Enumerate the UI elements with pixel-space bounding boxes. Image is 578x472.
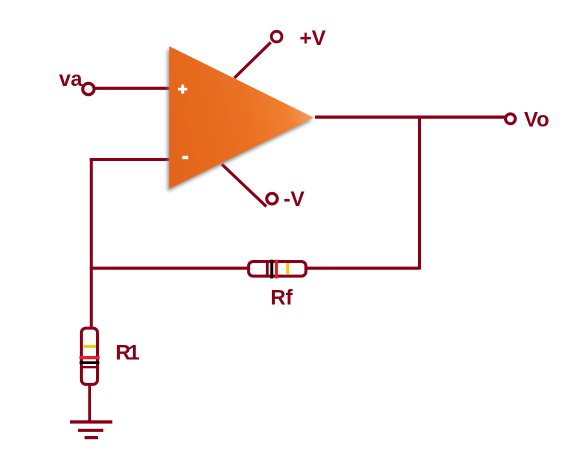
op-amp U1 triangle	[169, 46, 314, 189]
wire R1 bottom lead to ground	[88, 385, 91, 423]
svg-text:1: 1	[128, 342, 140, 365]
wire left vertical (inverting node down to R1)	[90, 158, 93, 329]
ground	[70, 420, 112, 439]
wire output horizontal	[315, 115, 505, 118]
terminal Vo	[506, 114, 516, 124]
svg-text:va: va	[59, 68, 83, 91]
svg-text:-V: -V	[284, 188, 305, 211]
terminal va	[83, 83, 94, 94]
op-amp non-inverting input plus sign	[178, 85, 187, 94]
wire right feedback vertical	[418, 117, 421, 269]
wire Rf left lead	[90, 267, 249, 270]
terminal +V	[271, 31, 282, 42]
wire va input to op-amp +	[94, 87, 170, 90]
wire -V diagonal	[222, 164, 266, 206]
wire Rf right lead	[306, 267, 420, 270]
op-amp inverting input minus sign	[182, 156, 188, 159]
terminal -V	[267, 193, 278, 204]
resistor Rf	[249, 260, 306, 279]
svg-text:+V: +V	[300, 27, 326, 50]
resistor R1	[79, 328, 99, 384]
wire +V diagonal	[234, 42, 270, 78]
svg-text:Vo: Vo	[524, 108, 549, 131]
wire inverting input horizontal	[90, 158, 170, 161]
svg-text:Rf: Rf	[271, 287, 294, 310]
